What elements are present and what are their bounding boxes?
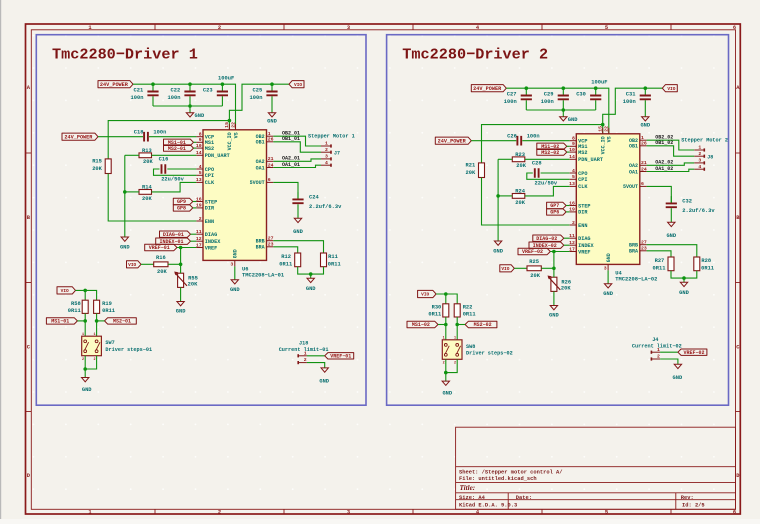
wire series cap to VCP pin — [149, 136, 196, 138]
svg-text:100n: 100n — [504, 99, 517, 105]
graphic box driver 1 — [36, 35, 366, 406]
resistor R28 (sense B) — [694, 257, 714, 271]
junction VIO switch rail — [83, 289, 87, 293]
wire OA1 to pin 4 / net OA1_01 — [273, 165, 321, 167]
svg-text:100n: 100n — [168, 95, 181, 101]
wire OB2 to motor connector pin 1 / net OB2_01 — [273, 136, 321, 146]
resistor R19 — [94, 300, 115, 314]
svg-text:1: 1 — [657, 347, 660, 353]
junction VREF divider — [552, 250, 556, 254]
svg-text:1: 1 — [443, 337, 445, 341]
global label VREF&#8722;01 (VREF) — [145, 244, 177, 250]
resistor R22 — [454, 304, 475, 318]
svg-text:R23: R23 — [515, 152, 525, 158]
svg-text:1: 1 — [325, 141, 328, 147]
resistor R27 (sense A) — [653, 257, 674, 271]
global label MS2&#8722;02 (switch tap) — [465, 321, 497, 327]
power label 24V_POWER (VCP) driver 2 — [435, 137, 471, 144]
power label VIO (MS switch section) driver 1 — [57, 287, 76, 294]
svg-text:2: 2 — [304, 357, 307, 363]
svg-text:5: 5 — [572, 174, 575, 180]
svg-text:R25: R25 — [529, 259, 539, 265]
wire 24V rail to VS pin — [506, 88, 609, 134]
power label VIO (VREF divider) — [127, 261, 142, 268]
svg-text:MS2−01: MS2−01 — [113, 319, 131, 325]
ground bank — [186, 106, 205, 119]
global label MS2&#8722;01 (MS2) — [164, 145, 194, 151]
switch SW7 dip switch body — [82, 333, 152, 362]
svg-text:C21: C21 — [134, 88, 144, 94]
svg-text:2.2uf/6.3v: 2.2uf/6.3v — [682, 208, 715, 214]
ground IC — [230, 280, 240, 293]
svg-text:100n: 100n — [527, 133, 540, 139]
svg-text:GND: GND — [82, 387, 92, 393]
svg-text:BRB: BRB — [629, 243, 638, 249]
junction bank bottom — [562, 108, 566, 112]
capacitor C32 — [666, 196, 716, 222]
svg-text:GND: GND — [176, 309, 186, 315]
svg-text:2: 2 — [218, 510, 221, 516]
IC right pins — [623, 135, 647, 255]
svg-text:GND: GND — [673, 375, 683, 381]
svg-text:C24: C24 — [309, 194, 319, 200]
svg-text:Rev:: Rev: — [681, 495, 694, 501]
svg-text:INDEX: INDEX — [205, 239, 221, 245]
junction divider — [552, 267, 556, 271]
svg-text:OA1: OA1 — [629, 169, 638, 175]
svg-text:12: 12 — [196, 236, 202, 242]
global label GP7 (STEP) — [547, 202, 567, 208]
svg-text:DIR: DIR — [205, 206, 215, 212]
svg-text:14: 14 — [196, 150, 202, 156]
capacitor C31 — [623, 88, 651, 110]
svg-text:Tmc2280−Driver 1: Tmc2280−Driver 1 — [52, 46, 198, 64]
svg-text:4: 4 — [199, 164, 202, 170]
svg-text:OB1: OB1 — [256, 140, 265, 146]
power label 24V_POWER (top bank) driver 2 — [471, 85, 506, 92]
capacitor C18 (series) — [134, 129, 167, 141]
svg-text:13: 13 — [569, 181, 575, 187]
wire OA2 to pin 3 / net OA2_01 — [273, 159, 321, 161]
connector J18 current limit driver 1 — [279, 341, 329, 365]
svg-text:CPI: CPI — [578, 177, 587, 183]
global label VREF&#8722;02 (current limit) — [678, 349, 707, 355]
wire ENN rail lower — [108, 174, 196, 222]
svg-text:GND: GND — [640, 123, 650, 129]
junction bank C1 — [151, 82, 155, 86]
wire OB2 to motor connector pin 1 / net OB2_02 — [647, 140, 695, 150]
svg-text:GND: GND — [493, 249, 503, 255]
global label GP9 (STEP) — [173, 198, 193, 204]
power label 24V_POWER (VCP) driver 1 — [62, 133, 98, 140]
junction pulldown rail — [123, 190, 127, 194]
svg-text:100uF: 100uF — [591, 80, 607, 86]
IC bottom pin GND — [604, 253, 612, 271]
svg-text:26: 26 — [641, 141, 647, 147]
junction MS2 tap — [455, 323, 459, 327]
svg-text:21: 21 — [268, 156, 274, 162]
svg-text:0R11: 0R11 — [328, 261, 341, 267]
svg-text:DIAG: DIAG — [205, 232, 217, 238]
wire pot bottom to GND — [180, 287, 182, 301]
svg-text:VS: VS — [607, 136, 613, 142]
wire 24V to series cap — [471, 140, 516, 142]
resistor R24 (CLK pulldown) — [512, 189, 525, 206]
wire CLK pulldown — [125, 191, 139, 193]
ground sense resistors — [679, 278, 689, 296]
junction VCC_IO / ENN rail — [228, 119, 232, 123]
ground pot — [549, 306, 559, 319]
svg-text:OA2_02: OA2_02 — [655, 160, 673, 166]
svg-text:R13: R13 — [142, 148, 152, 154]
junction VIO rail — [270, 82, 274, 86]
ground J4 — [673, 364, 683, 381]
svg-text:1: 1 — [268, 131, 271, 137]
svg-text:5: 5 — [605, 25, 608, 31]
wire CPO — [541, 172, 570, 174]
svg-text:GP6: GP6 — [550, 210, 559, 216]
svg-text:R22: R22 — [463, 304, 473, 310]
svg-text:20K: 20K — [515, 200, 525, 206]
svg-text:MS2−02: MS2−02 — [541, 150, 559, 156]
wire CPO — [167, 168, 196, 170]
svg-text:R16: R16 — [156, 255, 166, 261]
IC bottom pin GND — [230, 249, 238, 267]
op-amp U4 TMC2208 driver IC body — [576, 134, 640, 265]
wire VIO to divider resistors — [76, 290, 97, 300]
svg-text:BRA: BRA — [629, 249, 638, 255]
junction pulldown rail — [496, 194, 500, 198]
svg-text:6: 6 — [268, 177, 271, 183]
svg-text:OA2: OA2 — [256, 159, 265, 165]
svg-text:R19: R19 — [102, 301, 112, 307]
svg-text:VCC_IO: VCC_IO — [227, 132, 233, 150]
resistor R12 (sense A) — [279, 253, 300, 267]
wire divider to junction — [168, 263, 181, 265]
svg-text:R30: R30 — [432, 304, 442, 310]
svg-text:U4: U4 — [615, 270, 622, 276]
svg-text:J7: J7 — [334, 151, 340, 157]
svg-text:4: 4 — [572, 168, 575, 174]
grid dots (decorative) — [33, 35, 715, 490]
svg-text:20K: 20K — [142, 196, 152, 202]
svg-text:MS1−02: MS1−02 — [412, 322, 430, 328]
svg-text:R58: R58 — [71, 301, 81, 307]
connector J7 stepper motor driver 1 — [308, 134, 355, 167]
global label MS2&#8722;02 (MS2) — [537, 149, 567, 155]
svg-text:2: 2 — [572, 220, 575, 226]
svg-text:Date:: Date: — [516, 495, 532, 501]
svg-text:1: 1 — [698, 145, 701, 151]
junction bank C3 — [594, 86, 598, 90]
svg-text:8: 8 — [199, 132, 202, 138]
wire BRA to resistor R27 — [647, 251, 671, 257]
svg-text:22: 22 — [230, 122, 236, 128]
svg-text:MS2−01: MS2−01 — [168, 146, 186, 152]
svg-text:23: 23 — [641, 246, 647, 252]
wire J18 pin 2 to GND — [307, 363, 325, 368]
svg-text:OA2_01: OA2_01 — [282, 156, 300, 162]
wire ENN rail (VIO pull) — [108, 121, 229, 159]
svg-text:BRA: BRA — [256, 245, 265, 251]
svg-text:0R11: 0R11 — [102, 308, 115, 314]
junction VIO rail — [644, 86, 648, 90]
wire series cap to VCP pin — [522, 140, 569, 142]
svg-text:MS2: MS2 — [205, 146, 214, 152]
svg-text:STEP: STEP — [205, 199, 217, 205]
svg-text:ENN: ENN — [205, 219, 214, 225]
svg-text:MS2: MS2 — [578, 150, 587, 156]
junction switch GND — [444, 371, 448, 375]
wire MS1 resistor to switch — [84, 313, 86, 336]
svg-text:GND: GND — [267, 119, 277, 125]
svg-text:DIAG−02: DIAG−02 — [536, 236, 557, 242]
svg-text:GND: GND — [120, 245, 130, 251]
wire BRB to resistor R11 — [273, 241, 323, 253]
resistor R30 — [428, 304, 448, 318]
svg-text:File: untitled.kicad_sch: File: untitled.kicad_sch — [459, 476, 537, 482]
svg-text:SW8: SW8 — [466, 344, 475, 350]
ground sense resistors — [306, 274, 316, 292]
capacitor C30 — [576, 88, 601, 110]
svg-text:R14: R14 — [142, 185, 152, 191]
svg-text:Stepper Motor 2: Stepper Motor 2 — [681, 138, 728, 144]
svg-text:20K: 20K — [466, 170, 476, 176]
svg-text:24V_POWER: 24V_POWER — [64, 134, 93, 140]
svg-text:16: 16 — [569, 200, 575, 206]
capacitor C24 — [292, 192, 342, 218]
svg-text:C18: C18 — [134, 129, 144, 135]
svg-text:R21: R21 — [466, 162, 476, 168]
svg-text:22u/50v: 22u/50v — [161, 177, 184, 183]
svg-text:R27: R27 — [655, 258, 665, 264]
wire MS2 resistor to switch — [96, 313, 98, 336]
svg-text:VREF−02: VREF−02 — [522, 249, 543, 255]
junction MS1 tap — [83, 319, 87, 323]
op-amp U6 TMC2208 driver IC body — [203, 130, 267, 261]
svg-text:KiCad E.D.A. 9.0.3: KiCad E.D.A. 9.0.3 — [459, 502, 517, 508]
ground C32 — [666, 222, 676, 239]
ground IC — [603, 284, 613, 297]
svg-text:27: 27 — [268, 236, 274, 242]
svg-text:20K: 20K — [188, 281, 198, 287]
svg-text:INDEX: INDEX — [578, 243, 594, 249]
wire PDN_UART — [125, 154, 139, 156]
svg-text:4: 4 — [698, 164, 701, 170]
power label VIO (VREF divider) — [500, 265, 515, 272]
IC left pins — [569, 136, 603, 256]
svg-text:R15: R15 — [92, 158, 102, 164]
resistor R58 — [68, 300, 88, 314]
svg-text:Sheet: /Stepper motor control: Sheet: /Stepper motor control A/ — [459, 470, 563, 476]
svg-text:27: 27 — [641, 240, 647, 246]
svg-text:VIO: VIO — [501, 266, 509, 272]
svg-text:VS: VS — [233, 132, 239, 138]
wire 5VOUT to capacitor C32 — [647, 186, 672, 203]
svg-text:6: 6 — [733, 510, 736, 516]
svg-text:19: 19 — [196, 203, 202, 209]
svg-text:PDN_UART: PDN_UART — [205, 153, 230, 159]
svg-text:VCC_IO: VCC_IO — [601, 136, 607, 154]
svg-text:0R11: 0R11 — [701, 265, 714, 271]
svg-text:8: 8 — [572, 136, 575, 142]
svg-text:2: 2 — [325, 147, 328, 153]
svg-text:SW7: SW7 — [105, 340, 114, 346]
svg-text:CPI: CPI — [205, 173, 214, 179]
svg-text:5: 5 — [199, 170, 202, 176]
junction VIO switch rail — [444, 292, 448, 296]
wire MS1 resistor to switch — [445, 317, 447, 340]
svg-text:BRB: BRB — [256, 239, 265, 245]
svg-text:3: 3 — [604, 265, 607, 271]
svg-text:TMC2208−LA−02: TMC2208−LA−02 — [615, 276, 657, 282]
global label MS1&#8722;02 (switch tap) — [407, 321, 438, 327]
wire VIO to divider resistor — [141, 263, 154, 265]
resistor R25 — [527, 259, 541, 279]
power label VIO (top bank) — [662, 85, 677, 92]
capacitor C23 — [203, 84, 228, 106]
svg-text:DIR: DIR — [578, 210, 588, 216]
svg-text:2: 2 — [698, 151, 701, 157]
ground C25 — [267, 106, 277, 125]
junction VCC_IO / ENN rail — [601, 123, 605, 127]
svg-text:2: 2 — [218, 25, 221, 31]
svg-text:J4: J4 — [652, 337, 658, 343]
svg-text:19: 19 — [569, 207, 575, 213]
svg-text:24V_POWER: 24V_POWER — [473, 86, 502, 92]
svg-text:VIO: VIO — [294, 82, 302, 88]
IC left pins — [196, 132, 230, 252]
capacitor C27 — [504, 88, 532, 110]
capacitor C16 (charge pump) — [159, 156, 185, 182]
svg-text:GND: GND — [233, 249, 239, 258]
svg-text:1: 1 — [304, 350, 307, 356]
ground C24 — [293, 218, 303, 235]
svg-text:4: 4 — [325, 160, 328, 166]
svg-text:0R11: 0R11 — [463, 312, 476, 318]
ground switch — [442, 373, 453, 397]
wire ENN rail lower — [482, 178, 570, 226]
junction divider — [179, 263, 183, 267]
svg-text:R28: R28 — [701, 258, 711, 264]
junction bank C2 — [562, 86, 566, 90]
svg-text:Title:: Title: — [460, 484, 476, 492]
wire 24V to series cap — [98, 136, 143, 138]
svg-text:22: 22 — [604, 126, 610, 132]
junction VREF divider — [179, 246, 183, 250]
svg-text:C25: C25 — [253, 88, 263, 94]
junction MS1 tap — [444, 323, 448, 327]
global label INDEX&#8722;01 (INDEX) — [156, 238, 191, 244]
resistor R11 (sense B) — [321, 253, 341, 267]
svg-text:13: 13 — [196, 177, 202, 183]
ground bank — [560, 110, 579, 123]
svg-text:TMC2208−LA−01: TMC2208−LA−01 — [242, 272, 284, 278]
global label VREF&#8722;01 (current limit) — [325, 353, 354, 359]
resistor R14 (CLK pulldown) — [139, 185, 152, 202]
wire CLK pulldown — [498, 195, 512, 197]
wire divider to junction — [541, 267, 554, 269]
wire bank bottom join — [153, 105, 222, 107]
svg-text:GND: GND — [230, 287, 240, 293]
svg-text:MS1−01: MS1−01 — [51, 319, 69, 325]
wire sense resistors to GND — [298, 267, 324, 274]
potentiometer R26 — [548, 276, 572, 292]
junction sense GND — [682, 276, 686, 280]
svg-text:12: 12 — [569, 240, 575, 246]
svg-text:1: 1 — [88, 510, 91, 516]
svg-text:GND: GND — [549, 313, 559, 319]
svg-text:17: 17 — [569, 246, 575, 252]
svg-text:6: 6 — [641, 181, 644, 187]
svg-text:24V_POWER: 24V_POWER — [100, 82, 129, 88]
svg-text:2: 2 — [657, 354, 660, 360]
IC reference U6 and value — [242, 266, 284, 278]
svg-text:3: 3 — [347, 510, 350, 516]
svg-text:2: 2 — [82, 358, 84, 362]
IC top pins VCC_IO and VS — [224, 122, 239, 150]
svg-text:100n: 100n — [250, 95, 263, 101]
svg-text:20K: 20K — [516, 163, 526, 169]
svg-text:VIO: VIO — [128, 262, 136, 268]
svg-text:24: 24 — [641, 166, 647, 172]
svg-text:GND: GND — [319, 378, 329, 384]
svg-text:20K: 20K — [561, 285, 571, 291]
wire pot top — [553, 268, 555, 277]
ground pot — [176, 302, 186, 315]
ground J18 — [319, 368, 329, 385]
wire OB1 to pin 2 / net OB1_02 — [647, 146, 695, 156]
wire IC GND — [234, 266, 236, 279]
svg-text:DIAG−01: DIAG−01 — [163, 232, 184, 238]
svg-text:DIAG: DIAG — [578, 236, 590, 242]
svg-text:CLK: CLK — [205, 180, 215, 186]
potentiometer R55 — [174, 272, 198, 288]
svg-text:C26: C26 — [507, 133, 517, 139]
svg-text:C23: C23 — [203, 88, 213, 94]
wire pulldown rail to GND — [124, 155, 126, 237]
svg-text:STEP: STEP — [578, 203, 590, 209]
svg-text:MS2−02: MS2−02 — [474, 322, 492, 328]
svg-text:3: 3 — [230, 261, 233, 267]
svg-text:6: 6 — [733, 25, 736, 31]
resistor R23 (PDN_UART pulldown) — [512, 152, 526, 169]
wire OA1 to pin 4 / net OA1_02 — [647, 169, 695, 171]
svg-text:Size: A4: Size: A4 — [459, 495, 486, 501]
svg-text:23: 23 — [268, 242, 274, 248]
svg-text:14: 14 — [569, 154, 575, 160]
resistor R13 (PDN_UART pulldown) — [139, 148, 153, 165]
junction bank C1 — [525, 86, 529, 90]
svg-text:24: 24 — [268, 162, 274, 168]
svg-text:100n: 100n — [541, 99, 554, 105]
svg-text:OA2: OA2 — [629, 163, 638, 169]
svg-text:GND: GND — [679, 290, 689, 296]
svg-text:ENN: ENN — [578, 223, 587, 229]
svg-text:GND: GND — [666, 233, 676, 239]
svg-text:2: 2 — [199, 216, 202, 222]
svg-text:GND: GND — [306, 286, 316, 292]
svg-text:GND: GND — [568, 117, 578, 123]
wire 24V rail to VS pin — [133, 84, 236, 130]
junction bank bottom — [188, 104, 192, 108]
capacitor C26 (series) — [507, 133, 540, 145]
wire pulldown rail to GND — [497, 159, 499, 241]
svg-text:24V_POWER: 24V_POWER — [438, 138, 467, 144]
wire J4 pin 2 to GND — [660, 359, 678, 364]
svg-text:C29: C29 — [544, 92, 554, 98]
svg-text:C30: C30 — [576, 92, 586, 98]
